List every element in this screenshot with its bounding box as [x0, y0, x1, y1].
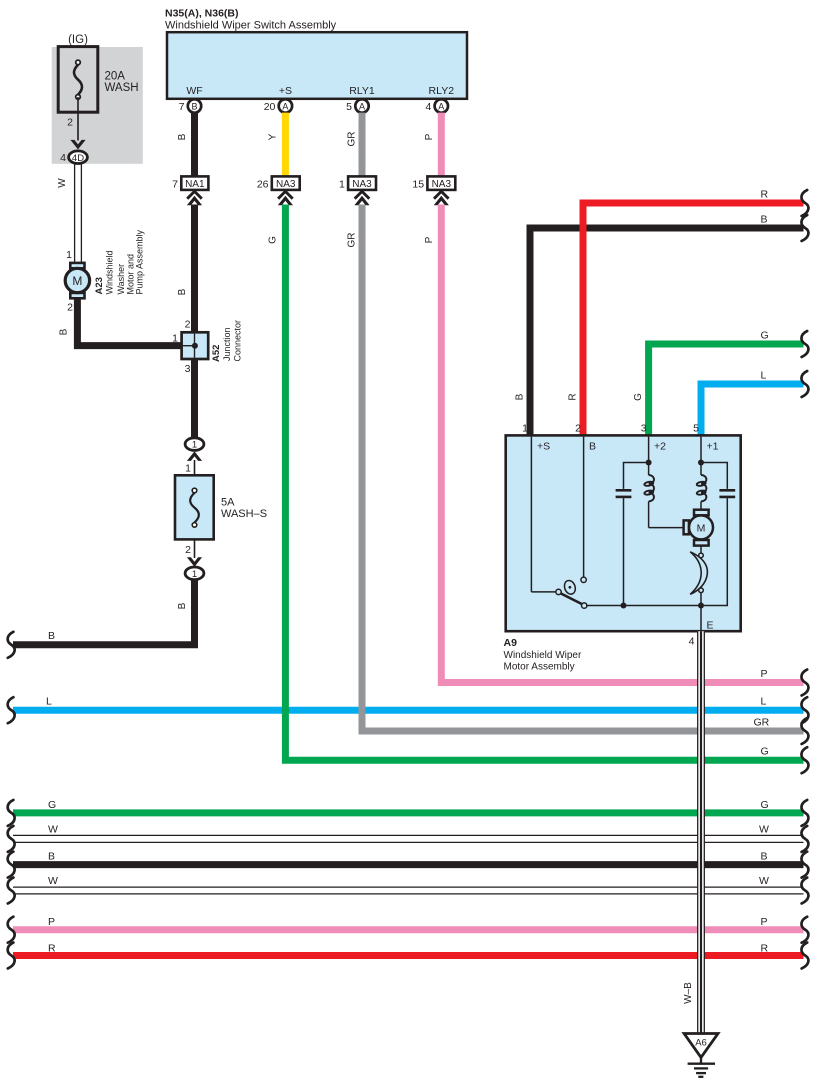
pin circle B (WF pin 7) — [179, 99, 202, 113]
svg-text:E: E — [707, 620, 714, 632]
svg-text:NA3: NA3 — [276, 179, 296, 190]
svg-text:4D: 4D — [72, 153, 84, 164]
svg-text:+S: +S — [279, 85, 292, 97]
svg-text:P: P — [48, 916, 55, 928]
arrow down into oval — [187, 557, 202, 567]
svg-text:20A: 20A — [105, 71, 126, 83]
svg-text:W: W — [57, 178, 68, 188]
svg-text:7: 7 — [172, 178, 178, 190]
wire B from WF to NA1 — [191, 113, 198, 177]
svg-text:G: G — [268, 236, 279, 244]
wire P pink: NA3 down and right — [441, 205, 803, 683]
wire thin to 5A fuse — [194, 460, 196, 475]
svg-text:+2: +2 — [654, 441, 666, 453]
wire W (4D to washer motor, white double line) — [75, 163, 82, 264]
svg-text:B: B — [515, 393, 526, 400]
svg-text:5A: 5A — [221, 497, 235, 509]
junction dot +2 — [646, 460, 652, 466]
svg-text:Windshield Wiper: Windshield Wiper — [504, 650, 582, 661]
wire G green right — [649, 344, 804, 436]
svg-text:3: 3 — [641, 423, 647, 435]
svg-text:(IG): (IG) — [68, 34, 88, 46]
svg-text:P: P — [761, 916, 768, 928]
wire L blue horizontal full width — [13, 707, 804, 714]
svg-text:R: R — [761, 188, 769, 200]
svg-text:Windshield: Windshield — [105, 250, 115, 294]
svg-text:RLY1: RLY1 — [349, 85, 375, 97]
svg-text:R: R — [48, 943, 56, 955]
wire B from NA1 down through A52 — [191, 205, 198, 438]
bus wire W white double — [13, 835, 804, 842]
wire fuse to 4D — [77, 97, 79, 141]
svg-text:Motor Assembly: Motor Assembly — [504, 662, 575, 673]
wire W-B from E to ground (white with black stripe) — [698, 631, 705, 1036]
connector NA3 (pin 26) — [257, 176, 300, 205]
A9 internal: +1 lead — [701, 437, 727, 606]
svg-text:1: 1 — [172, 333, 178, 345]
svg-text:L: L — [761, 369, 767, 381]
fuse 5A symbol — [190, 488, 199, 527]
wire P from RLY2 to NA3 — [438, 113, 445, 177]
svg-text:5: 5 — [346, 101, 352, 113]
bus wire P pink — [13, 926, 804, 933]
gray fuse panel background — [52, 47, 143, 164]
svg-text:2: 2 — [67, 302, 73, 314]
svg-text:L: L — [46, 696, 52, 708]
svg-text:1: 1 — [522, 423, 528, 435]
wire thin below fuse — [194, 539, 196, 558]
coil L (+2) — [644, 475, 654, 501]
svg-text:A23: A23 — [94, 277, 105, 294]
motor M (wiper) — [684, 510, 713, 546]
svg-text:A52: A52 — [211, 345, 222, 362]
svg-text:1: 1 — [185, 463, 191, 475]
svg-text:B: B — [589, 441, 596, 453]
svg-text:20: 20 — [264, 101, 276, 113]
svg-text:P: P — [424, 133, 435, 140]
pin circle A (+S pin 20) — [264, 99, 292, 113]
svg-text:B: B — [761, 213, 768, 225]
wire L blue right — [701, 384, 804, 436]
wire G green: NA3 down and right — [285, 205, 803, 761]
svg-text:1: 1 — [192, 440, 197, 451]
svg-text:4: 4 — [689, 636, 695, 648]
switch assembly N35/N36 box — [167, 32, 467, 99]
svg-text:GR: GR — [754, 716, 770, 728]
bus wire R red — [13, 952, 804, 959]
E lead — [700, 606, 702, 631]
A23 vertical label block — [94, 229, 145, 294]
svg-text:B: B — [191, 101, 197, 111]
svg-text:A: A — [438, 101, 444, 111]
bus wire W white double (second) — [13, 887, 804, 894]
svg-text:M: M — [697, 522, 706, 534]
svg-text:2: 2 — [575, 423, 581, 435]
svg-text:4: 4 — [60, 152, 66, 164]
junction dot +1 — [698, 460, 704, 466]
oval connector 1 (above 5A fuse) — [185, 438, 204, 451]
svg-text:Windshield Wiper Switch Assemb: Windshield Wiper Switch Assembly — [165, 20, 337, 32]
svg-text:2: 2 — [67, 117, 73, 129]
svg-text:W: W — [759, 824, 769, 836]
junction connector A52 — [182, 332, 209, 359]
svg-text:RLY2: RLY2 — [429, 85, 455, 97]
svg-text:1: 1 — [339, 178, 345, 190]
park switch cam ellipse — [563, 579, 578, 596]
connector NA3 (pin 15) — [412, 176, 455, 205]
wire B motor to A52 — [77, 298, 181, 346]
wire Y from +S to NA3 — [282, 113, 289, 177]
svg-text:WF: WF — [186, 85, 202, 97]
pin circle A (RLY2 pin 4) — [425, 99, 448, 113]
fuse 5A WASH-S box — [175, 475, 214, 539]
capacitor C (left) — [616, 490, 632, 497]
bus wire G green — [13, 809, 804, 816]
svg-text:7: 7 — [179, 101, 185, 113]
wiper cam crescent — [700, 546, 702, 553]
wiper motor assembly A9 box — [506, 435, 741, 631]
svg-text:Connector: Connector — [232, 320, 242, 362]
svg-text:+S: +S — [537, 441, 550, 453]
svg-text:Washer: Washer — [116, 264, 126, 295]
svg-text:5: 5 — [693, 423, 699, 435]
svg-text:B: B — [59, 328, 70, 335]
svg-text:A6: A6 — [695, 1038, 707, 1049]
wire GR gray: NA3 down and right — [362, 205, 804, 732]
ground symbol hatches — [688, 1057, 715, 1076]
connector NA1 (pin 7) — [172, 176, 208, 205]
svg-text:4: 4 — [425, 101, 431, 113]
bus wire B black — [13, 861, 804, 868]
svg-text:B: B — [177, 602, 188, 609]
capacitor C (right) — [719, 490, 735, 497]
svg-text:G: G — [761, 329, 769, 341]
svg-text:WASH–S: WASH–S — [221, 508, 267, 520]
svg-text:B: B — [177, 133, 188, 140]
svg-text:WASH: WASH — [105, 82, 139, 94]
wire B oval down then left off page — [13, 579, 195, 645]
svg-text:B: B — [761, 851, 768, 863]
svg-text:N35(A), N36(B): N35(A), N36(B) — [165, 8, 239, 20]
svg-text:P: P — [761, 668, 768, 680]
svg-text:B: B — [48, 851, 55, 863]
svg-text:2: 2 — [185, 544, 191, 556]
pin circle A (RLY1 pin 5) — [346, 99, 369, 113]
svg-text:P: P — [424, 236, 435, 243]
svg-text:Junction: Junction — [222, 327, 232, 361]
svg-text:+1: +1 — [707, 441, 719, 453]
A9 internal: +S lead and park switch — [531, 437, 582, 605]
svg-text:R: R — [568, 393, 579, 400]
svg-text:W: W — [759, 875, 769, 887]
svg-text:W–B: W–B — [683, 982, 694, 1004]
svg-text:G: G — [761, 799, 769, 811]
coil L (+1) — [696, 475, 706, 501]
connector NA3 (pin 1) — [339, 176, 376, 205]
svg-text:2: 2 — [185, 319, 191, 331]
svg-text:3: 3 — [185, 363, 191, 375]
svg-text:G: G — [761, 746, 769, 758]
svg-text:GR: GR — [347, 132, 358, 147]
svg-text:NA1: NA1 — [185, 179, 205, 190]
svg-text:R: R — [761, 943, 769, 955]
svg-text:A: A — [359, 101, 365, 111]
fuse 20A WASH symbol — [74, 60, 82, 99]
wire GR from RLY1 to NA3 — [359, 113, 366, 177]
svg-text:NA3: NA3 — [352, 179, 372, 190]
svg-text:B: B — [48, 630, 55, 642]
svg-text:GR: GR — [347, 233, 358, 248]
svg-text:L: L — [761, 696, 767, 708]
wire R red top right — [583, 203, 804, 436]
svg-text:G: G — [633, 393, 644, 401]
park switch contact circles — [556, 589, 561, 594]
svg-text:NA3: NA3 — [432, 179, 452, 190]
svg-text:1: 1 — [192, 569, 197, 580]
oval connector 1 (below 5A fuse) — [185, 567, 204, 580]
svg-text:26: 26 — [257, 178, 269, 190]
ground A6 triangle — [684, 1034, 718, 1058]
svg-text:A: A — [282, 101, 288, 111]
svg-text:M: M — [72, 274, 82, 288]
A9 internal: +2 lead — [624, 437, 684, 606]
svg-text:1: 1 — [66, 249, 72, 261]
svg-text:Pump Assembly: Pump Assembly — [134, 229, 144, 294]
arrow into 4D — [70, 140, 85, 150]
wire B top right horizontal — [530, 228, 804, 436]
svg-text:15: 15 — [412, 178, 424, 190]
svg-text:G: G — [48, 799, 56, 811]
svg-text:A9: A9 — [504, 637, 518, 649]
A52 vertical label block — [211, 320, 242, 362]
motor A23 washer pump — [65, 263, 89, 298]
arrow up into oval — [187, 451, 202, 461]
svg-text:W: W — [48, 824, 58, 836]
fuse 20A WASH box — [58, 47, 98, 113]
connector 4D oval — [69, 151, 88, 164]
svg-text:W: W — [48, 875, 58, 887]
svg-text:B: B — [177, 288, 188, 295]
svg-text:Y: Y — [268, 133, 279, 140]
A9 internal bottom bus — [586, 605, 701, 607]
A9 internal: B lead with open contact — [583, 437, 585, 577]
